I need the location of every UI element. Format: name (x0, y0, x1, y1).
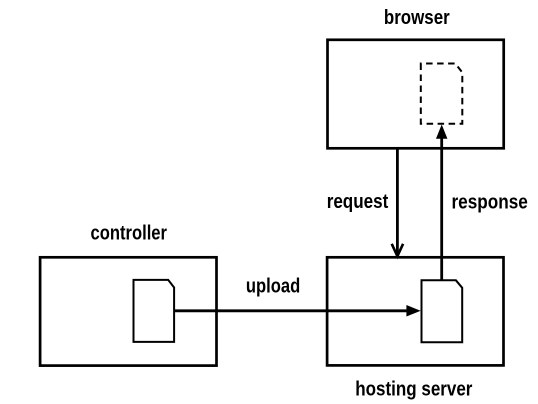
document in hosting server (422, 280, 463, 342)
box hosting server (327, 257, 503, 365)
document in controller (134, 280, 175, 342)
svg-text:hosting server: hosting server (355, 379, 472, 401)
wire request (browser bottom to hosting server top) (396, 148, 399, 254)
svg-text:upload: upload (246, 276, 300, 298)
svg-text:controller: controller (91, 223, 168, 245)
arrowhead response (triangle, pointing up) (437, 126, 447, 139)
svg-text:browser: browser (384, 7, 450, 29)
box browser (328, 40, 504, 149)
box controller (40, 257, 216, 365)
wire response (hosting doc top to dashed doc bottom) (440, 135, 443, 280)
svg-text:request: request (327, 191, 389, 213)
arrowhead upload (triangle, pointing right) (407, 306, 420, 316)
wire upload (controller doc to hosting doc) (175, 309, 410, 312)
dashed document (page in browser) (421, 64, 463, 124)
svg-text:response: response (452, 192, 528, 214)
arrowhead request (stealth, pointing down) (392, 244, 403, 256)
